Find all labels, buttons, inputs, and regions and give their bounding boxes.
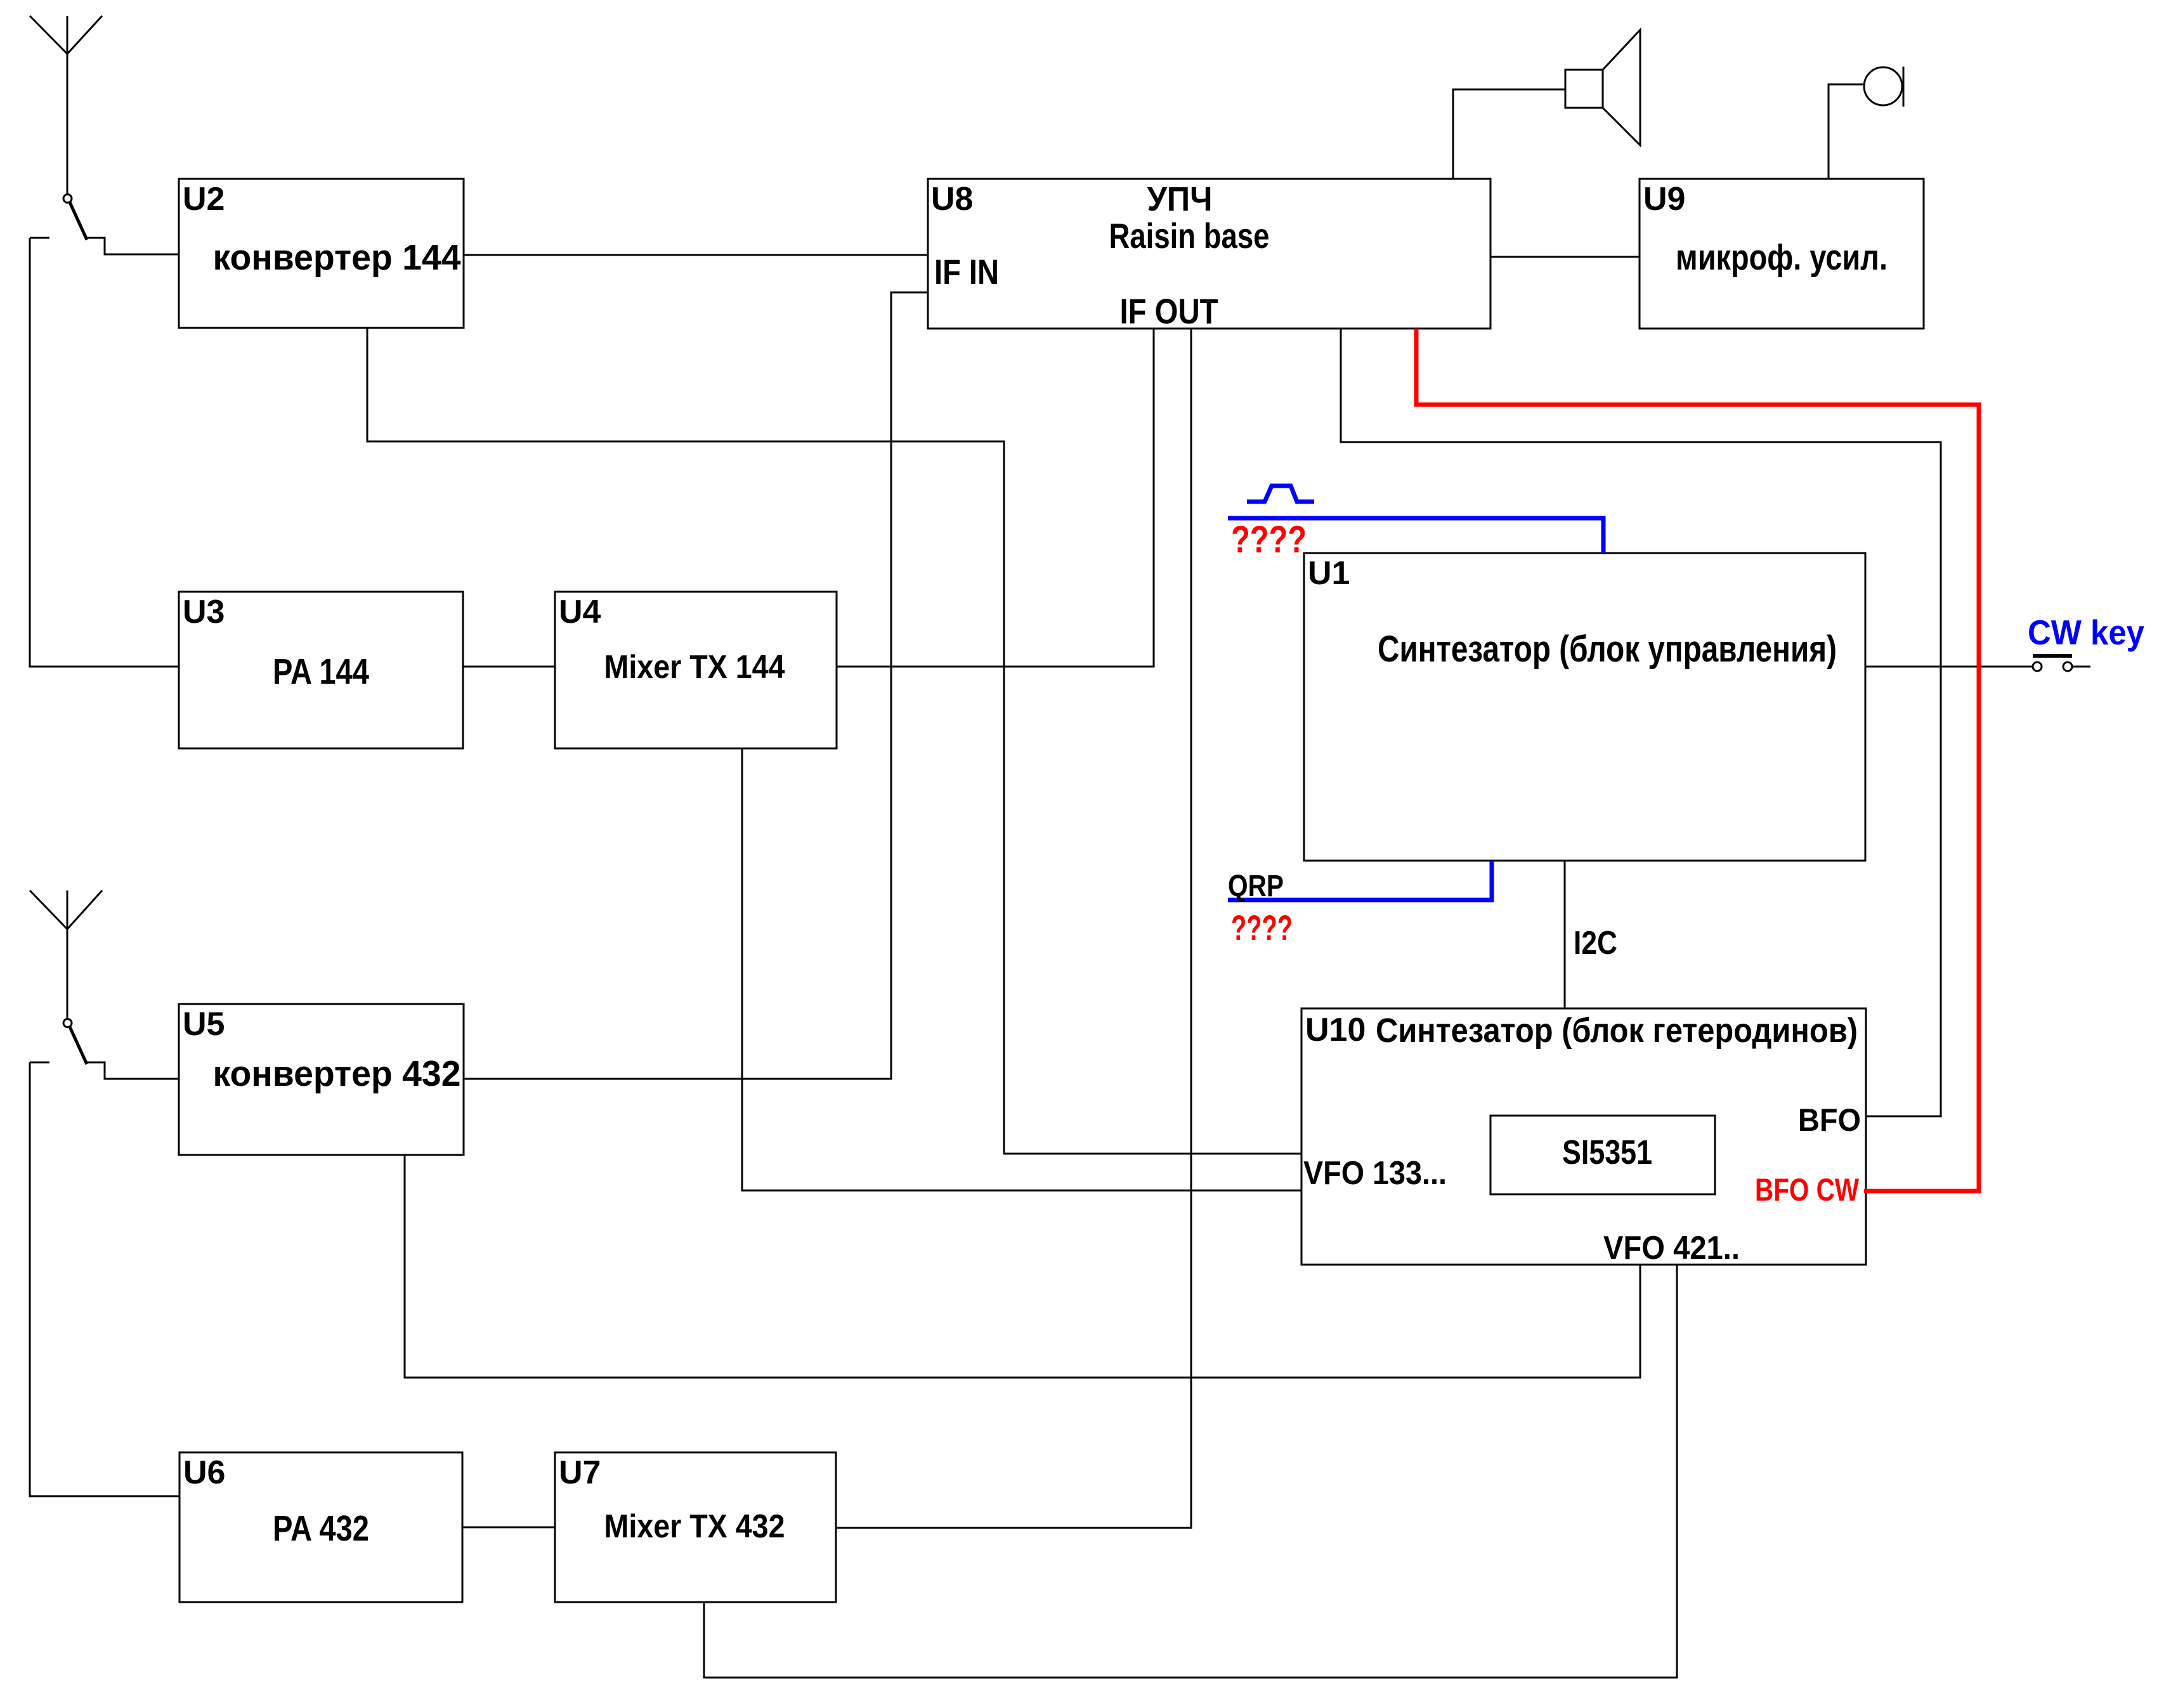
CW key contacts <box>2033 656 2090 671</box>
wire U4 IF input from U8 IF OUT <box>837 329 1154 667</box>
synthesizer LO U10 box <box>1301 1008 1866 1265</box>
pulse waveform symbol <box>1247 486 1314 502</box>
wire U5 output to U8 IF IN <box>464 292 928 1079</box>
antenna ANT1 (144 MHz) <box>30 16 102 195</box>
svg-text:QRP: QRP <box>1228 870 1284 903</box>
svg-text:УПЧ: УПЧ <box>1147 180 1213 218</box>
svg-text:U7: U7 <box>559 1454 601 1491</box>
wire SW1 to U2 RX input <box>88 238 179 254</box>
svg-text:PA 432: PA 432 <box>273 1508 369 1549</box>
net TX pulse (blue) to U1 top <box>1228 486 1603 553</box>
wire U4 LO from U10 VFO133 <box>742 748 1302 1190</box>
wire U3 to U4 <box>463 666 555 668</box>
svg-text:VFO 421..: VFO 421.. <box>1603 1230 1740 1267</box>
svg-text:PA 144: PA 144 <box>273 651 369 692</box>
converter U5 box <box>179 1004 464 1155</box>
svg-text:U1: U1 <box>1308 555 1350 592</box>
wire U5 LO from U10 VFO421 <box>405 1155 1640 1378</box>
svg-text:Mixer TX 432: Mixer TX 432 <box>604 1508 785 1545</box>
svg-text:VFO 133...: VFO 133... <box>1303 1155 1447 1192</box>
wire U8 to U9 <box>1490 256 1640 258</box>
svg-text:U9: U9 <box>1643 181 1685 218</box>
wire U1 to CW key <box>1865 666 2033 668</box>
svg-text:U10: U10 <box>1305 1012 1366 1048</box>
svg-text:Raisin base: Raisin base <box>1109 216 1270 256</box>
net BFO CW (red) from U10 to U8 <box>1416 329 1979 1191</box>
svg-text:конвертер 144: конвертер 144 <box>213 237 461 278</box>
wire U2 output to U8 input <box>464 254 928 256</box>
svg-text:SI5351: SI5351 <box>1562 1133 1652 1171</box>
svg-text:IF IN: IF IN <box>934 252 999 292</box>
mixer U7 box <box>555 1452 836 1602</box>
svg-text:Синтезатор (блок гетеродинов): Синтезатор (блок гетеродинов) <box>1376 1012 1858 1050</box>
wire U8 BFO from U10 <box>1341 329 1941 1116</box>
IF amp U8 box <box>928 179 1490 329</box>
svg-text:U2: U2 <box>183 181 225 218</box>
svg-text:BFO CW: BFO CW <box>1755 1172 1860 1208</box>
svg-text:микроф. усил.: микроф. усил. <box>1676 237 1888 278</box>
wire SW1 TX rail to U3 <box>30 238 179 667</box>
speaker wire from U8 <box>1453 89 1565 179</box>
I2C bus wire U1 to U10 <box>1564 861 1566 1008</box>
wire U2 LO from U10 VFO133 <box>367 328 1302 1154</box>
svg-text:BFO: BFO <box>1798 1102 1861 1138</box>
svg-text:????: ???? <box>1231 908 1293 948</box>
microphone BM1 <box>1864 67 1903 107</box>
svg-text:U4: U4 <box>559 594 601 630</box>
svg-text:Синтезатор (блок управления): Синтезатор (блок управления) <box>1378 629 1837 670</box>
svg-text:I2C: I2C <box>1574 925 1617 962</box>
svg-text:U6: U6 <box>183 1454 225 1491</box>
wire SW2 to U5 RX input <box>88 1062 179 1079</box>
svg-text:конвертер 432: конвертер 432 <box>213 1053 461 1094</box>
wire SW2 TX rail to U6 <box>30 1062 179 1496</box>
PA U3 box <box>179 592 463 748</box>
svg-text:U3: U3 <box>183 594 225 630</box>
wire U7 output to U8 IF OUT <box>836 329 1191 1528</box>
speaker LS1 <box>1565 30 1640 145</box>
svg-text:U5: U5 <box>183 1006 225 1043</box>
wire U6 to U7 <box>462 1527 555 1529</box>
svg-text:????: ???? <box>1231 518 1307 561</box>
net QRP (blue) from U1 bottom <box>1228 861 1492 900</box>
microphone wire to U9 <box>1829 84 1864 179</box>
mic amp U9 box <box>1640 179 1924 329</box>
mixer U4 box <box>555 592 837 748</box>
switch SW1 antenna relay 144 <box>30 195 87 240</box>
svg-text:IF OUT: IF OUT <box>1120 291 1218 331</box>
switch SW2 antenna relay 432 <box>30 1019 87 1065</box>
chip SI5351 box <box>1490 1116 1715 1194</box>
synthesizer control U1 box <box>1304 553 1865 861</box>
converter U2 box <box>179 179 464 328</box>
svg-text:U8: U8 <box>931 181 973 218</box>
svg-text:CW key: CW key <box>2028 613 2144 652</box>
svg-text:Mixer TX 144: Mixer TX 144 <box>604 649 785 686</box>
wire U7 LO from U10 VFO421 <box>704 1265 1677 1678</box>
antenna ANT2 (432 MHz) <box>30 890 102 1019</box>
PA U6 box <box>179 1452 462 1602</box>
